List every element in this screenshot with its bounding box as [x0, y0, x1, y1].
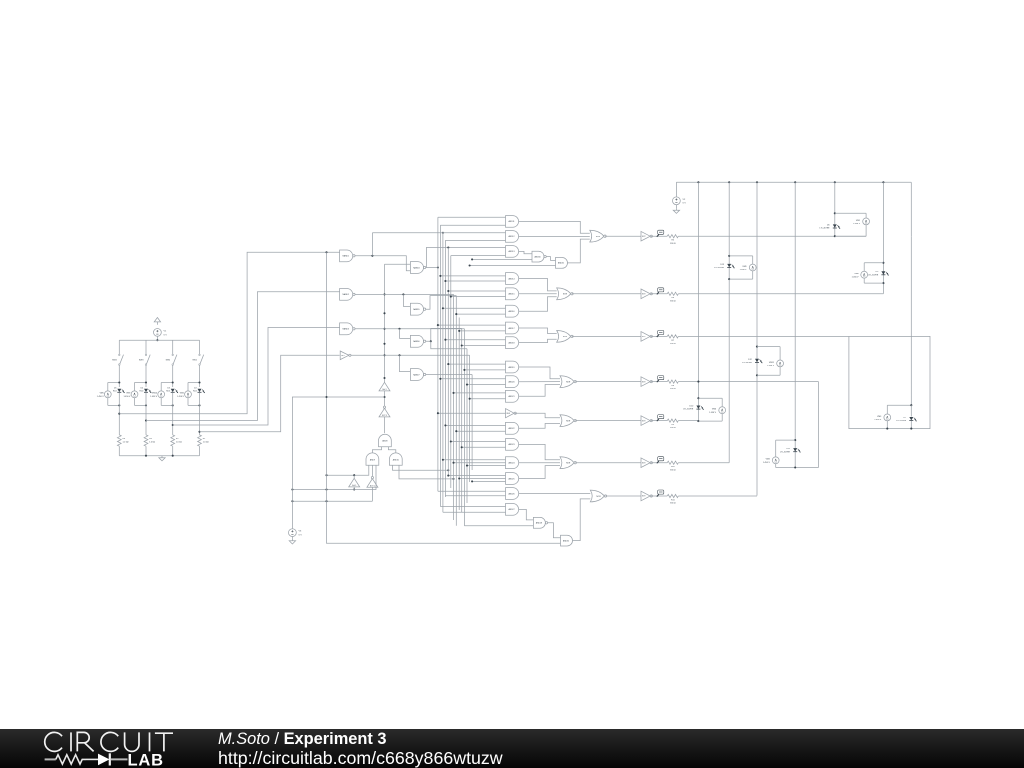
voltmeter VM8 — [861, 271, 868, 278]
resistor R1 — [198, 435, 202, 446]
wire branch 4 lower — [199, 393, 201, 435]
wire bottom rail — [119, 455, 199, 457]
svg-text:AND21: AND21 — [508, 395, 514, 398]
svg-text:AND32: AND32 — [563, 539, 569, 542]
wire AND17 output jog — [519, 328, 557, 334]
wire NAND3 output to bus — [355, 328, 464, 330]
AND gate AND24 — [506, 457, 519, 469]
wire NOT1 output to AND9 — [371, 465, 373, 476]
svg-text:NOT: NOT — [341, 355, 345, 357]
svg-text:AND8: AND8 — [382, 440, 387, 443]
switch SW1 — [199, 354, 201, 356]
svg-text:Red: Red — [166, 391, 170, 393]
svg-text:VM1: VM1 — [856, 220, 861, 222]
LED D12 — [755, 359, 759, 362]
svg-text:NOT: NOT — [642, 381, 646, 383]
wire AND20 output — [519, 381, 560, 383]
wire line C to NOT1 — [292, 500, 372, 502]
wire Buf5 output stub — [353, 475, 355, 478]
svg-text:LAB: LAB — [128, 752, 164, 768]
voltmeter VM6 — [719, 407, 726, 414]
svg-text:1.456 V: 1.456 V — [763, 462, 771, 464]
wires AND bank inputs — [438, 216, 506, 218]
wire NAND7 output to bus — [426, 374, 472, 376]
ground (V2) — [675, 205, 677, 209]
inverter NOT8 — [641, 289, 650, 299]
svg-text:AND28: AND28 — [536, 522, 542, 525]
wire AND11 output to NOR1 — [519, 221, 590, 233]
svg-text:NOT: NOT — [642, 336, 646, 338]
svg-text:NAND7: NAND7 — [413, 373, 419, 376]
svg-text:330 Ω: 330 Ω — [670, 343, 676, 345]
svg-text:NOR: NOR — [563, 336, 568, 338]
wire AND18 output jog — [519, 339, 557, 342]
wire AND15 output — [519, 293, 557, 295]
svg-text:AND17: AND17 — [508, 327, 514, 330]
svg-text:AND9: AND9 — [370, 458, 375, 461]
I — [70, 732, 72, 751]
NAND gate NAND7 — [410, 369, 423, 381]
wire long vertical to AND32 — [327, 252, 561, 543]
svg-text:SW4: SW4 — [112, 360, 117, 362]
svg-text:330 Ω: 330 Ω — [670, 469, 676, 471]
svg-text:1.0 kΩ: 1.0 kΩ — [123, 442, 129, 444]
wire Buf5 input stub — [353, 487, 355, 490]
svg-text:D7: D7 — [904, 417, 907, 419]
buffer Buf3 — [379, 382, 390, 391]
svg-text:Red: Red — [140, 391, 144, 393]
AND gate AND23 — [506, 439, 519, 451]
svg-text:5 V: 5 V — [683, 203, 687, 205]
svg-text:VM11: VM11 — [769, 362, 775, 364]
LED D9 — [881, 271, 885, 274]
AND gate AND17 — [506, 322, 519, 334]
svg-text:R2: R2 — [176, 438, 179, 440]
svg-text:1.456 V: 1.456 V — [123, 396, 131, 398]
svg-text:V1: V1 — [164, 331, 167, 333]
NOR gate NOR6 — [560, 457, 574, 469]
svg-text:LTL-307EE: LTL-307EE — [896, 420, 907, 422]
svg-text:D10: D10 — [690, 406, 695, 408]
svg-text:AND11: AND11 — [509, 220, 515, 223]
svg-text:1.456 V: 1.456 V — [853, 223, 861, 225]
wire NAND3 branch to NAND6 — [400, 329, 411, 339]
title text — [218, 730, 387, 749]
svg-text:AND18: AND18 — [508, 341, 514, 344]
wire AND21 output jog — [519, 385, 560, 397]
wire inverter NOT6 output — [651, 381, 667, 383]
inverter NOT10 — [641, 458, 650, 468]
inverter NOT5 — [379, 408, 390, 417]
wire G7 meter stub — [887, 404, 911, 406]
wire branch 1 middle — [118, 365, 120, 387]
wire inverter NOT3 output — [651, 420, 667, 422]
wire branch 4 bottom — [199, 446, 201, 456]
wire inverter NOT9 output — [651, 235, 667, 237]
wire V1 to rail — [156, 336, 158, 340]
svg-text:1.0 kΩ: 1.0 kΩ — [149, 442, 155, 444]
wire rail drop to D10 — [697, 182, 699, 421]
svg-text:330 Ω: 330 Ω — [670, 300, 676, 302]
wire NOT1 input stub — [371, 487, 373, 501]
NOR gate NOR2 — [557, 288, 571, 300]
probe flag row 1 — [658, 230, 664, 234]
LED D10 — [696, 406, 700, 409]
voltage source V2 — [673, 197, 681, 205]
NAND gate NAND1 — [340, 250, 353, 262]
wire AND24 output — [519, 462, 560, 464]
AND gate AND19 — [506, 361, 519, 373]
svg-text:LTL-307EE: LTL-307EE — [714, 267, 725, 269]
NAND gate AND28 — [533, 517, 545, 528]
svg-text:LTL-307EE: LTL-307EE — [683, 409, 694, 411]
wire AND12 output to NOR1 — [519, 235, 590, 237]
svg-text:AND19: AND19 — [508, 366, 514, 369]
LED D11 — [793, 448, 797, 451]
AND gate AND25 — [506, 473, 519, 485]
NOR gate NOR7 — [590, 490, 604, 502]
switch SW4 — [119, 354, 121, 356]
AND gate AND10 — [389, 453, 402, 465]
NAND gate NAND3 — [340, 323, 353, 335]
svg-text:NOR: NOR — [596, 236, 601, 238]
wire AND30 lower input — [472, 258, 532, 260]
svg-text:NOT: NOT — [642, 462, 646, 464]
wire AND25 output jog — [519, 466, 560, 479]
AND gate AND13 — [506, 246, 519, 258]
wire tap 3 to riser — [173, 328, 340, 426]
wire LED group loop D6 — [835, 212, 866, 214]
resistor R3 — [144, 435, 148, 446]
buffer Buf5 — [349, 478, 360, 487]
wire LED group loop D11 — [776, 439, 796, 441]
svg-text:VM9: VM9 — [742, 266, 747, 268]
AND gate AND31 — [556, 258, 568, 269]
wire rail drop to D11 — [794, 182, 796, 467]
svg-text:D13: D13 — [720, 264, 725, 266]
svg-text:330 Ω: 330 Ω — [670, 427, 676, 429]
svg-text:VM3: VM3 — [877, 416, 882, 418]
wire row 1 to LED group — [678, 235, 866, 237]
voltmeter VM11 — [777, 360, 784, 367]
NOR gate NOR1 — [590, 230, 604, 242]
svg-text:330 Ω: 330 Ω — [670, 388, 676, 390]
inverter NOT3 — [641, 416, 650, 426]
svg-text:5 V: 5 V — [299, 535, 303, 537]
resistor R6 — [667, 292, 678, 295]
svg-text:1.0 kΩ: 1.0 kΩ — [176, 442, 182, 444]
wire NOT5 input from AND8 — [384, 417, 386, 433]
wire NOR2 output — [572, 293, 641, 295]
wire branch 3 middle — [172, 365, 174, 387]
NOR gate NOR4 — [560, 376, 574, 388]
wire AND22 output jog — [519, 424, 560, 429]
svg-text:Buf 3: Buf 3 — [383, 389, 387, 391]
svg-text:LTL-307EE: LTL-307EE — [780, 451, 791, 453]
svg-text:AND23: AND23 — [508, 443, 514, 446]
AND gate AND12 — [506, 231, 519, 243]
AND gate AND8 — [379, 434, 392, 446]
svg-text:330 Ω: 330 Ω — [670, 243, 676, 245]
svg-text:Buf 5: Buf 5 — [352, 485, 356, 487]
wire top rail — [119, 339, 199, 341]
wire NAND5 output to bus — [426, 296, 457, 310]
svg-text:330 Ω: 330 Ω — [670, 503, 676, 505]
inverter NOT4 — [340, 351, 349, 360]
probe flag row 2 — [658, 288, 664, 292]
resistor R10 — [667, 461, 678, 464]
wire NAND1 output riser to AND12 line — [371, 233, 373, 256]
svg-text:AND30: AND30 — [534, 255, 540, 258]
wire inverter NOT8 output — [651, 293, 667, 295]
svg-text:NOT 1: NOT 1 — [370, 485, 375, 487]
NAND gate NAND2 — [340, 289, 353, 301]
wire branch 3 upper — [172, 340, 174, 354]
inverter BUF1 — [506, 409, 515, 418]
wire NAND4 output branches — [426, 267, 438, 269]
svg-text:VM7: VM7 — [126, 393, 131, 395]
svg-text:AND31: AND31 — [558, 262, 564, 265]
svg-text:1.456 V: 1.456 V — [709, 412, 717, 414]
wire AND27 output to AND28 — [519, 509, 534, 520]
R — [77, 732, 93, 751]
svg-text:NOR: NOR — [563, 294, 568, 296]
svg-text:LTL-307EE: LTL-307EE — [742, 362, 753, 364]
wire inverter NOT11 output — [651, 495, 667, 497]
svg-text:NOT 5: NOT 5 — [382, 415, 387, 417]
svg-text:NOT: NOT — [642, 420, 646, 422]
svg-text:1.456 V: 1.456 V — [177, 396, 185, 398]
NAND gate AND30 — [532, 251, 544, 262]
LED D3 — [171, 389, 175, 392]
resistor-diode squiggle — [45, 758, 128, 760]
wire branch 3 bottom — [172, 446, 174, 456]
svg-text:NOT: NOT — [642, 236, 646, 238]
svg-text:AND22: AND22 — [508, 427, 514, 430]
svg-text:R7: R7 — [672, 340, 675, 342]
wire NAND2 output to bus — [355, 293, 453, 295]
voltmeter VM3 — [884, 414, 891, 421]
voltmeter VM10 — [161, 382, 173, 384]
svg-text:1.456 V: 1.456 V — [97, 396, 105, 398]
AND gate AND18 — [506, 337, 519, 349]
wire tap 4 to riser — [200, 355, 340, 432]
wire branch 3 lower — [172, 393, 174, 435]
svg-text:V2: V2 — [683, 199, 686, 201]
voltmeter VM4 — [772, 457, 779, 464]
wire NOR7 output — [606, 495, 641, 497]
wire AND31 output to NOR1 — [568, 239, 590, 263]
wire AND13 output to AND30 — [519, 251, 532, 253]
CircuitLab logo — [0, 728, 200, 768]
wire branch 4 middle — [199, 365, 201, 387]
svg-text:1.456 V: 1.456 V — [740, 269, 748, 271]
wire V3 riser — [292, 397, 384, 529]
url text — [218, 748, 503, 768]
wire G5 return to row4 — [818, 382, 820, 468]
inverter NOT11 — [641, 491, 650, 501]
AND gate AND27 — [506, 504, 519, 516]
ground (left block) — [161, 456, 163, 458]
wire AND10 input a — [393, 465, 449, 470]
svg-text:AND10: AND10 — [393, 458, 399, 461]
NOR gate NOR3 — [557, 331, 571, 343]
wire branch 1 upper — [118, 340, 120, 354]
svg-text:VM10: VM10 — [152, 393, 158, 395]
wire NAND2 branch to NAND5 — [403, 294, 410, 306]
svg-text:NOT: NOT — [642, 294, 646, 296]
LED D6 — [833, 224, 837, 227]
inverter NOT6 — [641, 377, 650, 387]
wire NOT4 branch to NAND7 — [400, 355, 411, 371]
voltmeter VM7 — [135, 382, 147, 384]
svg-text:R10: R10 — [671, 466, 676, 468]
wire tap 1 to riser — [119, 252, 339, 413]
resistor R8 — [667, 380, 678, 383]
wire row 6 to LED group — [678, 462, 729, 464]
svg-text:VM4: VM4 — [766, 459, 771, 461]
svg-text:R3: R3 — [149, 438, 152, 440]
probe flag row 5 — [658, 415, 664, 419]
wire row 4 to LED group — [678, 381, 818, 383]
wire V2 stub — [675, 182, 677, 197]
svg-text:NAND1: NAND1 — [342, 255, 348, 258]
svg-text:NOR: NOR — [566, 463, 571, 465]
svg-text:R9: R9 — [672, 424, 675, 426]
svg-text:AND12: AND12 — [508, 235, 514, 238]
wire NAND1 output to NAND4 — [355, 256, 410, 271]
wire tap 2 to riser — [146, 292, 340, 421]
wire AND10 output to AND8 — [388, 447, 395, 453]
LED D5 — [117, 389, 121, 392]
C — [101, 732, 118, 751]
wire G7 loop rectangle — [849, 336, 930, 428]
wire AND9 output to AND8 — [372, 447, 381, 453]
ground (V3) — [291, 537, 293, 539]
svg-text:1.0 kΩ: 1.0 kΩ — [203, 442, 209, 444]
wire AND9 input line A — [327, 465, 369, 475]
svg-text:Red: Red — [113, 391, 117, 393]
svg-text:NOR: NOR — [596, 496, 601, 498]
svg-text:R8: R8 — [672, 385, 675, 387]
resistor R5 — [667, 235, 678, 238]
wire branch 2 upper — [145, 340, 147, 354]
AND gate AND14 — [506, 273, 519, 285]
svg-text:NOR: NOR — [566, 381, 571, 383]
wire NOR1 output — [605, 235, 641, 237]
wire rail right end drop — [910, 182, 912, 236]
wire branch 2 lower — [145, 393, 147, 435]
wire row 3 to LED group — [678, 335, 849, 337]
voltage source V1 — [154, 329, 162, 337]
wire NOT4 output to bus — [351, 354, 470, 356]
svg-text:AND25: AND25 — [508, 477, 514, 480]
wire inverter NOT10 output — [651, 462, 667, 464]
inverter NOT9 — [641, 231, 650, 241]
voltage source V3 — [289, 529, 297, 537]
inverter NOT7 — [641, 332, 650, 342]
svg-text:D3: D3 — [167, 387, 170, 389]
svg-text:1.456 V: 1.456 V — [874, 419, 882, 421]
svg-text:LTL-307EE: LTL-307EE — [868, 274, 879, 276]
svg-text:VM8: VM8 — [854, 273, 859, 275]
wire LED group loop D13 — [729, 255, 753, 257]
probe flag row 7 — [658, 490, 664, 494]
wire bus verticals — [437, 217, 439, 491]
svg-text:NAND3: NAND3 — [342, 328, 348, 331]
svg-text:1.456 V: 1.456 V — [150, 396, 158, 398]
wire AND14 output jog — [519, 279, 557, 291]
voltmeter VM1 — [863, 218, 870, 225]
NAND gate NAND4 — [410, 262, 423, 274]
resistor R2 — [171, 435, 175, 446]
svg-text:VM5: VM5 — [100, 393, 105, 395]
svg-text:R6: R6 — [672, 297, 675, 299]
wire LED group loop D9 — [864, 262, 883, 264]
AND gate AND20 — [506, 376, 519, 388]
svg-text:NAND6: NAND6 — [413, 340, 419, 343]
AND gate AND21 — [506, 390, 519, 402]
wire NOR4 output — [575, 381, 641, 383]
wire AND30 output to AND31 — [546, 257, 555, 261]
resistor R11 — [667, 494, 678, 497]
wire rail drop to D12 — [756, 182, 758, 495]
svg-text:AND16: AND16 — [508, 310, 514, 313]
AND gate AND15 — [506, 288, 519, 300]
svg-text:D2: D2 — [194, 387, 197, 389]
switch SW2 — [172, 354, 174, 356]
AND gate AND9 — [366, 453, 379, 465]
svg-text:AND15: AND15 — [508, 293, 514, 296]
inverter NOT1 — [367, 479, 378, 488]
svg-text:NAND4: NAND4 — [413, 266, 419, 269]
svg-text:R4: R4 — [123, 438, 126, 440]
svg-text:SW2: SW2 — [166, 360, 171, 362]
LED D2 — [198, 389, 202, 392]
wire NAND4 upper input — [385, 263, 411, 265]
svg-text:NOR: NOR — [566, 420, 571, 422]
wire central fanout vertical — [384, 264, 386, 382]
voltmeter VM2 — [188, 382, 200, 384]
wire branch 1 lower — [118, 393, 120, 435]
I — [149, 732, 151, 751]
wire AND9 line B — [292, 465, 376, 489]
wire AND28 output to AND32 — [548, 523, 561, 538]
AND gate AND32 — [561, 535, 573, 546]
wire row 2 to LED group — [678, 293, 883, 295]
svg-text:V3: V3 — [299, 531, 302, 533]
svg-text:AND24: AND24 — [508, 462, 514, 465]
svg-text:VM2: VM2 — [180, 393, 185, 395]
svg-text:D12: D12 — [748, 359, 753, 361]
svg-text:R1: R1 — [203, 438, 206, 440]
wire NAND6 output branches — [426, 328, 462, 341]
wire Buf3 input — [384, 391, 386, 407]
voltmeter VM9 — [749, 264, 756, 271]
svg-text:AND27: AND27 — [508, 508, 514, 511]
probe flag row 6 — [658, 457, 664, 461]
wire branch 2 middle — [145, 365, 147, 387]
svg-text:BUF: BUF — [507, 413, 510, 415]
wire branch 2 bottom — [145, 446, 147, 456]
voltmeter VM5 — [108, 382, 120, 384]
wire AND19 output jog — [519, 367, 560, 379]
svg-text:R11: R11 — [671, 499, 675, 501]
svg-text:NOT: NOT — [642, 496, 646, 498]
AND gate AND11 — [506, 216, 519, 228]
svg-text:Red: Red — [193, 391, 197, 393]
power flag VCC — [154, 318, 160, 322]
